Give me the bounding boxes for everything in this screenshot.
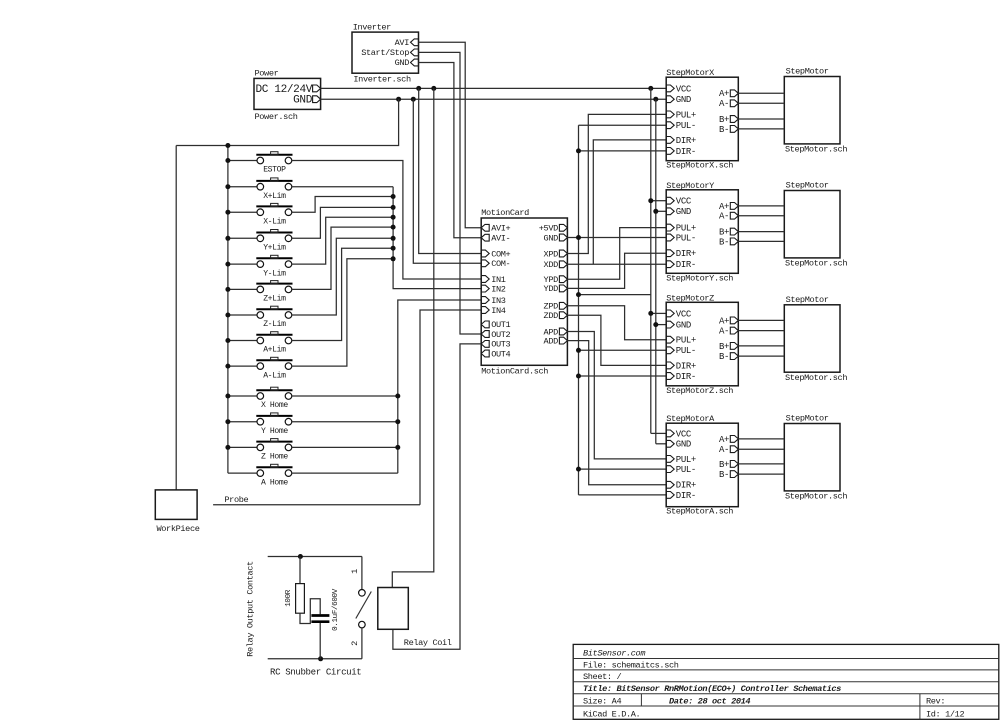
wire snubber top [268,556,362,558]
switch Y Home [256,413,292,436]
svg-text:GND: GND [676,321,691,331]
svg-text:1: 1 [350,569,360,574]
svg-text:A Home: A Home [261,478,288,487]
wire XDD / StepMotorY DIR- line [567,263,666,265]
svg-text:GND: GND [395,58,410,68]
wire bus lead to A Home [228,472,257,474]
wire motor A phase B- [738,473,784,475]
wire motor Y phase A+ [738,205,784,207]
svg-text:GND: GND [676,440,691,450]
svg-text:PUL-: PUL- [676,346,696,356]
hierarchical sheet StepMotor (motor Z) [784,295,847,383]
wire inverter AVI to MotionCard AVI+ [419,42,482,228]
wire bus lead to Z+Lim [228,288,257,290]
wire A Home right lead [292,472,398,474]
svg-text:A+: A+ [719,435,729,445]
wire motor X phase B- [738,128,784,130]
svg-text:B-: B- [719,352,729,362]
svg-text:Probe: Probe [224,495,248,505]
svg-text:Rev:: Rev: [926,696,945,706]
node limit bundle to IN2 [393,187,481,289]
wire Y-Lim to limit bundle [292,217,393,264]
wire Probe to IN4 [213,504,420,506]
svg-text:GND: GND [676,207,691,217]
svg-text:Title: BitSensor RnRMotion(ECO: Title: BitSensor RnRMotion(ECO+) Control… [583,684,841,694]
svg-text:StepMotorY: StepMotorY [666,181,714,191]
wire Z+Lim to limit bundle [292,227,393,289]
svg-text:StepMotor: StepMotor [786,181,829,191]
hierarchical sheet StepMotorX driver [666,68,738,171]
wire MotionCard OUT3 to relay coil bottom [393,344,481,649]
pin MotionCard XDD [559,261,567,268]
wire Y Home right lead [292,421,398,423]
wire motor Z phase B+ [738,345,784,347]
hierarchical sheet Power [254,69,321,123]
switch X-Lim [256,203,292,226]
switch A-Lim [256,357,292,380]
switch ESTOP [256,152,292,175]
wire XPD to StepMotorX PUL+ [567,114,666,253]
svg-text:StepMotorZ.sch: StepMotorZ.sch [666,386,733,396]
wire XDD branch to StepMotorX DIR+ [593,140,666,264]
svg-text:Z-Lim: Z-Lim [263,320,286,329]
pin MotionCard IN2 [481,285,489,292]
wire MotionCard GND to StepMotorY PUL- [567,237,666,239]
relay contact switch SW1 [356,557,372,659]
svg-text:MotionCard.sch: MotionCard.sch [481,367,548,377]
svg-text:VCC: VCC [676,429,692,439]
svg-text:YDD: YDD [544,284,559,294]
wire inverter Start/Stop to MotionCard OUT2 [419,52,482,334]
switch A Home [256,464,292,487]
svg-text:StepMotor: StepMotor [786,414,829,424]
wire motor A phase A+ [738,438,784,440]
wire motor A phase A- [738,448,784,450]
pin MotionCard ADD [559,337,567,344]
svg-text:A-: A- [719,445,729,455]
wire Z Home right lead [292,446,398,448]
svg-text:OUT1: OUT1 [491,320,510,330]
wire motor Z phase B- [738,355,784,357]
svg-text:DIR-: DIR- [676,147,696,157]
wire capacitor to bottom [319,623,321,659]
svg-text:GND: GND [293,95,313,107]
svg-text:PUL-: PUL- [676,465,696,475]
pin MotionCard YPD [559,276,567,283]
svg-text:StepMotor: StepMotor [786,295,829,305]
wire GND to MotionCard COM- [413,99,481,263]
wire ZPD to StepMotorZ PUL+ [567,306,666,340]
svg-text:A-Lim: A-Lim [263,371,286,380]
svg-text:COM-: COM- [491,259,510,269]
node switch common bus [227,146,229,474]
svg-text:IN4: IN4 [491,306,506,316]
svg-text:PUL+: PUL+ [676,224,696,234]
wire WorkPiece to rail [175,146,177,490]
svg-text:IN3: IN3 [491,296,506,306]
svg-text:A-: A- [719,327,729,337]
pin MotionCard AVI- [481,234,489,241]
svg-text:File: schemaitcs.sch: File: schemaitcs.sch [583,660,679,670]
svg-text:KiCad E.D.A.: KiCad E.D.A. [583,709,640,719]
svg-text:PUL+: PUL+ [676,455,696,465]
hierarchical sheet StepMotorZ driver [666,293,738,396]
wire inverter GND to MotionCard AVI- [419,63,482,238]
svg-text:Z+Lim: Z+Lim [263,295,286,304]
wire bus lead to Y+Lim [228,237,257,239]
wire bus lead to X Home [228,395,257,397]
svg-text:WorkPiece: WorkPiece [157,524,200,534]
hierarchical sheet StepMotor (motor X) [784,67,847,155]
svg-text:AVI+: AVI+ [491,224,510,234]
svg-text:StepMotor: StepMotor [786,67,829,77]
svg-text:StepMotor.sch: StepMotor.sch [785,145,847,155]
resistor R1 100R [285,557,304,614]
svg-text:StepMotorX: StepMotorX [666,68,714,78]
wire GND chain to StepMotorZ GND [656,324,666,326]
svg-text:2: 2 [350,641,360,646]
wire A+Lim to limit bundle [292,248,393,340]
wire motor Z phase A+ [738,319,784,321]
wire bus lead to X-Lim [228,211,257,213]
pin MotionCard IN4 [481,307,489,314]
wire ESTOP to IN1 [292,161,481,280]
svg-text:DIR+: DIR+ [676,361,696,371]
svg-text:DIR+: DIR+ [676,249,696,259]
hierarchical sheet StepMotor (motor Y) [784,181,847,269]
switch X Home [256,387,292,410]
node minus trunk [578,125,580,495]
svg-text:StepMotorY.sch: StepMotorY.sch [666,273,733,283]
svg-text:AVI-: AVI- [491,234,510,244]
svg-text:Sheet: /: Sheet: / [583,672,621,682]
svg-text:StepMotorA: StepMotorA [666,414,715,424]
svg-text:B+: B+ [719,460,729,470]
svg-text:X Home: X Home [261,401,288,410]
svg-text:XDD: XDD [544,260,559,270]
svg-text:+5VD: +5VD [539,224,558,234]
svg-text:A+: A+ [719,316,729,326]
wire trunk branch to VCC chain [579,294,651,296]
svg-text:Relay Output Contact: Relay Output Contact [246,561,256,657]
svg-text:X+Lim: X+Lim [263,192,286,201]
wire motor X phase B+ [738,118,784,120]
wire X+Lim to limit bundle [292,186,393,188]
wire motor X phase A- [738,102,784,104]
wire VCC chain to StepMotorA VCC [651,432,666,434]
svg-text:Size: A4: Size: A4 [583,696,621,706]
wire YPD to StepMotorY PUL+ [567,228,666,280]
pin MotionCard GND [559,234,567,241]
svg-text:B-: B- [719,237,729,247]
svg-text:B-: B- [719,470,729,480]
svg-text:StepMotorA.sch: StepMotorA.sch [666,507,733,517]
pin MotionCard XPD [559,250,567,257]
svg-text:StepMotorZ: StepMotorZ [666,293,714,303]
wire motor A phase B+ [738,463,784,465]
svg-text:StepMotor.sch: StepMotor.sch [785,492,847,502]
svg-text:XPD: XPD [544,249,559,259]
hierarchical sheet MotionCard U-MC [481,208,567,377]
pin MotionCard IN1 [481,276,489,283]
node GND chain [655,99,657,444]
wire X Home right lead [292,395,398,397]
pin MotionCard AVI+ [481,224,489,231]
svg-text:B+: B+ [719,115,729,125]
svg-text:PUL-: PUL- [676,121,696,131]
wire snubber bottom [268,658,362,660]
svg-text:Id: 1/12: Id: 1/12 [926,709,964,719]
svg-text:MotionCard: MotionCard [481,208,529,218]
wire trunk to StepMotorX DIR- [579,150,667,152]
wire motor Z phase A- [738,330,784,332]
switch Z Home [256,439,292,462]
svg-text:AVI: AVI [395,38,410,48]
svg-text:A+: A+ [719,202,729,212]
svg-text:Y+Lim: Y+Lim [263,244,286,253]
wire ZDD to StepMotorZ DIR+ [567,315,666,365]
wire APD to StepMotorA PUL+ [567,332,666,459]
node VCC chain [650,88,652,433]
wire bus lead to Z Home [228,446,257,448]
wire DC to MotionCard COM+ [419,88,482,253]
pin MotionCard YDD [559,285,567,292]
svg-text:A+: A+ [719,89,729,99]
pin MotionCard OUT4 [481,350,489,357]
svg-text:B+: B+ [719,342,729,352]
wire DC to relay coil top [392,88,434,587]
hierarchical sheet StepMotorY driver [666,181,738,283]
svg-text:B-: B- [719,125,729,135]
wire VCC chain to StepMotorZ VCC [651,312,666,314]
svg-text:Start/Stop: Start/Stop [361,48,409,58]
wire GND drop to switch common rail [176,99,398,145]
svg-text:Inverter: Inverter [353,23,391,33]
wire bus lead to A+Lim [228,340,257,342]
svg-text:DIR-: DIR- [676,372,696,382]
wire DC 12/24V rail [321,87,667,89]
pin MotionCard ZDD [559,312,567,319]
title block frame [573,644,999,719]
pin MotionCard IN3 [481,297,489,304]
wire Z-Lim to limit bundle [292,238,393,315]
svg-text:Power.sch: Power.sch [255,112,298,122]
svg-text:Inverter.sch: Inverter.sch [353,75,411,85]
junction DC rail [416,86,421,91]
pin MotionCard COM- [481,260,489,267]
wire GND rail [321,98,667,100]
svg-text:Power: Power [255,69,279,79]
svg-text:RC Snubber Circuit: RC Snubber Circuit [270,667,361,678]
hierarchical sheet Inverter [352,23,419,85]
svg-text:VCC: VCC [676,197,692,207]
pin MotionCard APD [559,328,567,335]
svg-text:GND: GND [544,233,559,243]
wire motor X phase A+ [738,92,784,94]
pin MotionCard +5VD [559,224,567,231]
pin MotionCard OUT3 [481,341,489,348]
relay coil K1 [378,588,452,649]
svg-text:DIR+: DIR+ [676,136,696,146]
junction GND rail [396,97,401,102]
wire trunk to StepMotorX PUL- [579,124,667,126]
svg-text:Relay Coil: Relay Coil [404,638,452,648]
svg-text:0.1uF/600V: 0.1uF/600V [332,588,340,631]
svg-text:OUT2: OUT2 [491,330,510,340]
svg-text:StepMotor.sch: StepMotor.sch [785,259,847,269]
wire bus lead to Y-Lim [228,263,257,265]
wire X-Lim to limit bundle [292,197,393,213]
pin MotionCard OUT1 [481,321,489,328]
node home switch net to IN3 [398,300,481,473]
wire bus lead to Y Home [228,421,257,423]
svg-text:A-: A- [719,99,729,109]
svg-text:A+Lim: A+Lim [263,346,286,355]
svg-text:OUT3: OUT3 [491,340,510,350]
svg-text:OUT4: OUT4 [491,349,510,359]
svg-text:Z Home: Z Home [261,453,288,462]
svg-text:PUL-: PUL- [676,233,696,243]
svg-text:Y Home: Y Home [261,427,288,436]
svg-text:Date: 28 oct 2014: Date: 28 oct 2014 [669,696,750,706]
wire GND chain to StepMotorY GND [656,210,666,212]
svg-text:COM+: COM+ [491,249,510,259]
wire YDD to StepMotorY DIR+ [567,253,666,288]
wire motor Y phase A- [738,215,784,217]
svg-text:ESTOP: ESTOP [263,166,286,175]
wire GND chain to StepMotorA GND [656,443,666,445]
switch Y+Lim [256,230,292,253]
sheet WorkPiece [155,490,199,534]
svg-text:IN2: IN2 [491,284,506,294]
svg-text:VCC: VCC [676,309,692,319]
svg-text:DIR+: DIR+ [676,481,696,491]
wire Y+Lim to limit bundle [292,207,393,238]
switch Y-Lim [256,255,292,278]
pin MotionCard COM+ [481,250,489,257]
wire bus lead to X+Lim [228,186,257,188]
svg-text:StepMotor.sch: StepMotor.sch [785,373,847,383]
wire resistor to capacitor [300,599,320,624]
svg-text:B+: B+ [719,228,729,238]
hierarchical sheet StepMotorA driver [666,414,738,517]
pin MotionCard OUT2 [481,331,489,338]
switch Z+Lim [256,281,292,304]
svg-text:PUL+: PUL+ [676,110,696,120]
wire bus lead to Z-Lim [228,314,257,316]
wire motor Y phase B+ [738,231,784,233]
wire A-Lim to limit bundle [292,259,393,366]
wire trunk to StepMotorA DIR- [579,494,667,496]
svg-text:PUL+: PUL+ [676,336,696,346]
wire trunk to StepMotorZ PUL- [579,349,667,351]
svg-text:A-: A- [719,212,729,222]
svg-text:BitSensor.com: BitSensor.com [583,649,645,659]
wire bus lead to A-Lim [228,365,257,367]
svg-text:X-Lim: X-Lim [263,217,286,226]
svg-text:StepMotorX.sch: StepMotorX.sch [666,161,733,171]
wire trunk to StepMotorZ DIR- [579,375,667,377]
wire VCC chain to StepMotorY VCC [651,200,666,202]
svg-text:DIR-: DIR- [676,491,696,501]
svg-text:ADD: ADD [544,336,559,346]
switch A+Lim [256,332,292,355]
capacitor C1 0.1uF/600V [311,588,340,631]
pin MotionCard ZPD [559,302,567,309]
hierarchical sheet StepMotor (motor A) [784,414,847,502]
svg-text:DIR-: DIR- [676,260,696,270]
switch X+Lim [256,178,292,201]
switch Z-Lim [256,306,292,329]
svg-text:100R: 100R [285,589,293,607]
wire bus lead to ESTOP [228,160,257,162]
wire ADD to StepMotorA DIR+ [567,341,666,485]
svg-text:ZDD: ZDD [544,311,559,321]
svg-text:GND: GND [676,95,691,105]
svg-text:IN1: IN1 [491,275,506,285]
svg-text:Y-Lim: Y-Lim [263,269,286,278]
wire motor Y phase B- [738,240,784,242]
wire trunk to StepMotorA PUL- [579,468,667,470]
svg-text:VCC: VCC [676,84,692,94]
